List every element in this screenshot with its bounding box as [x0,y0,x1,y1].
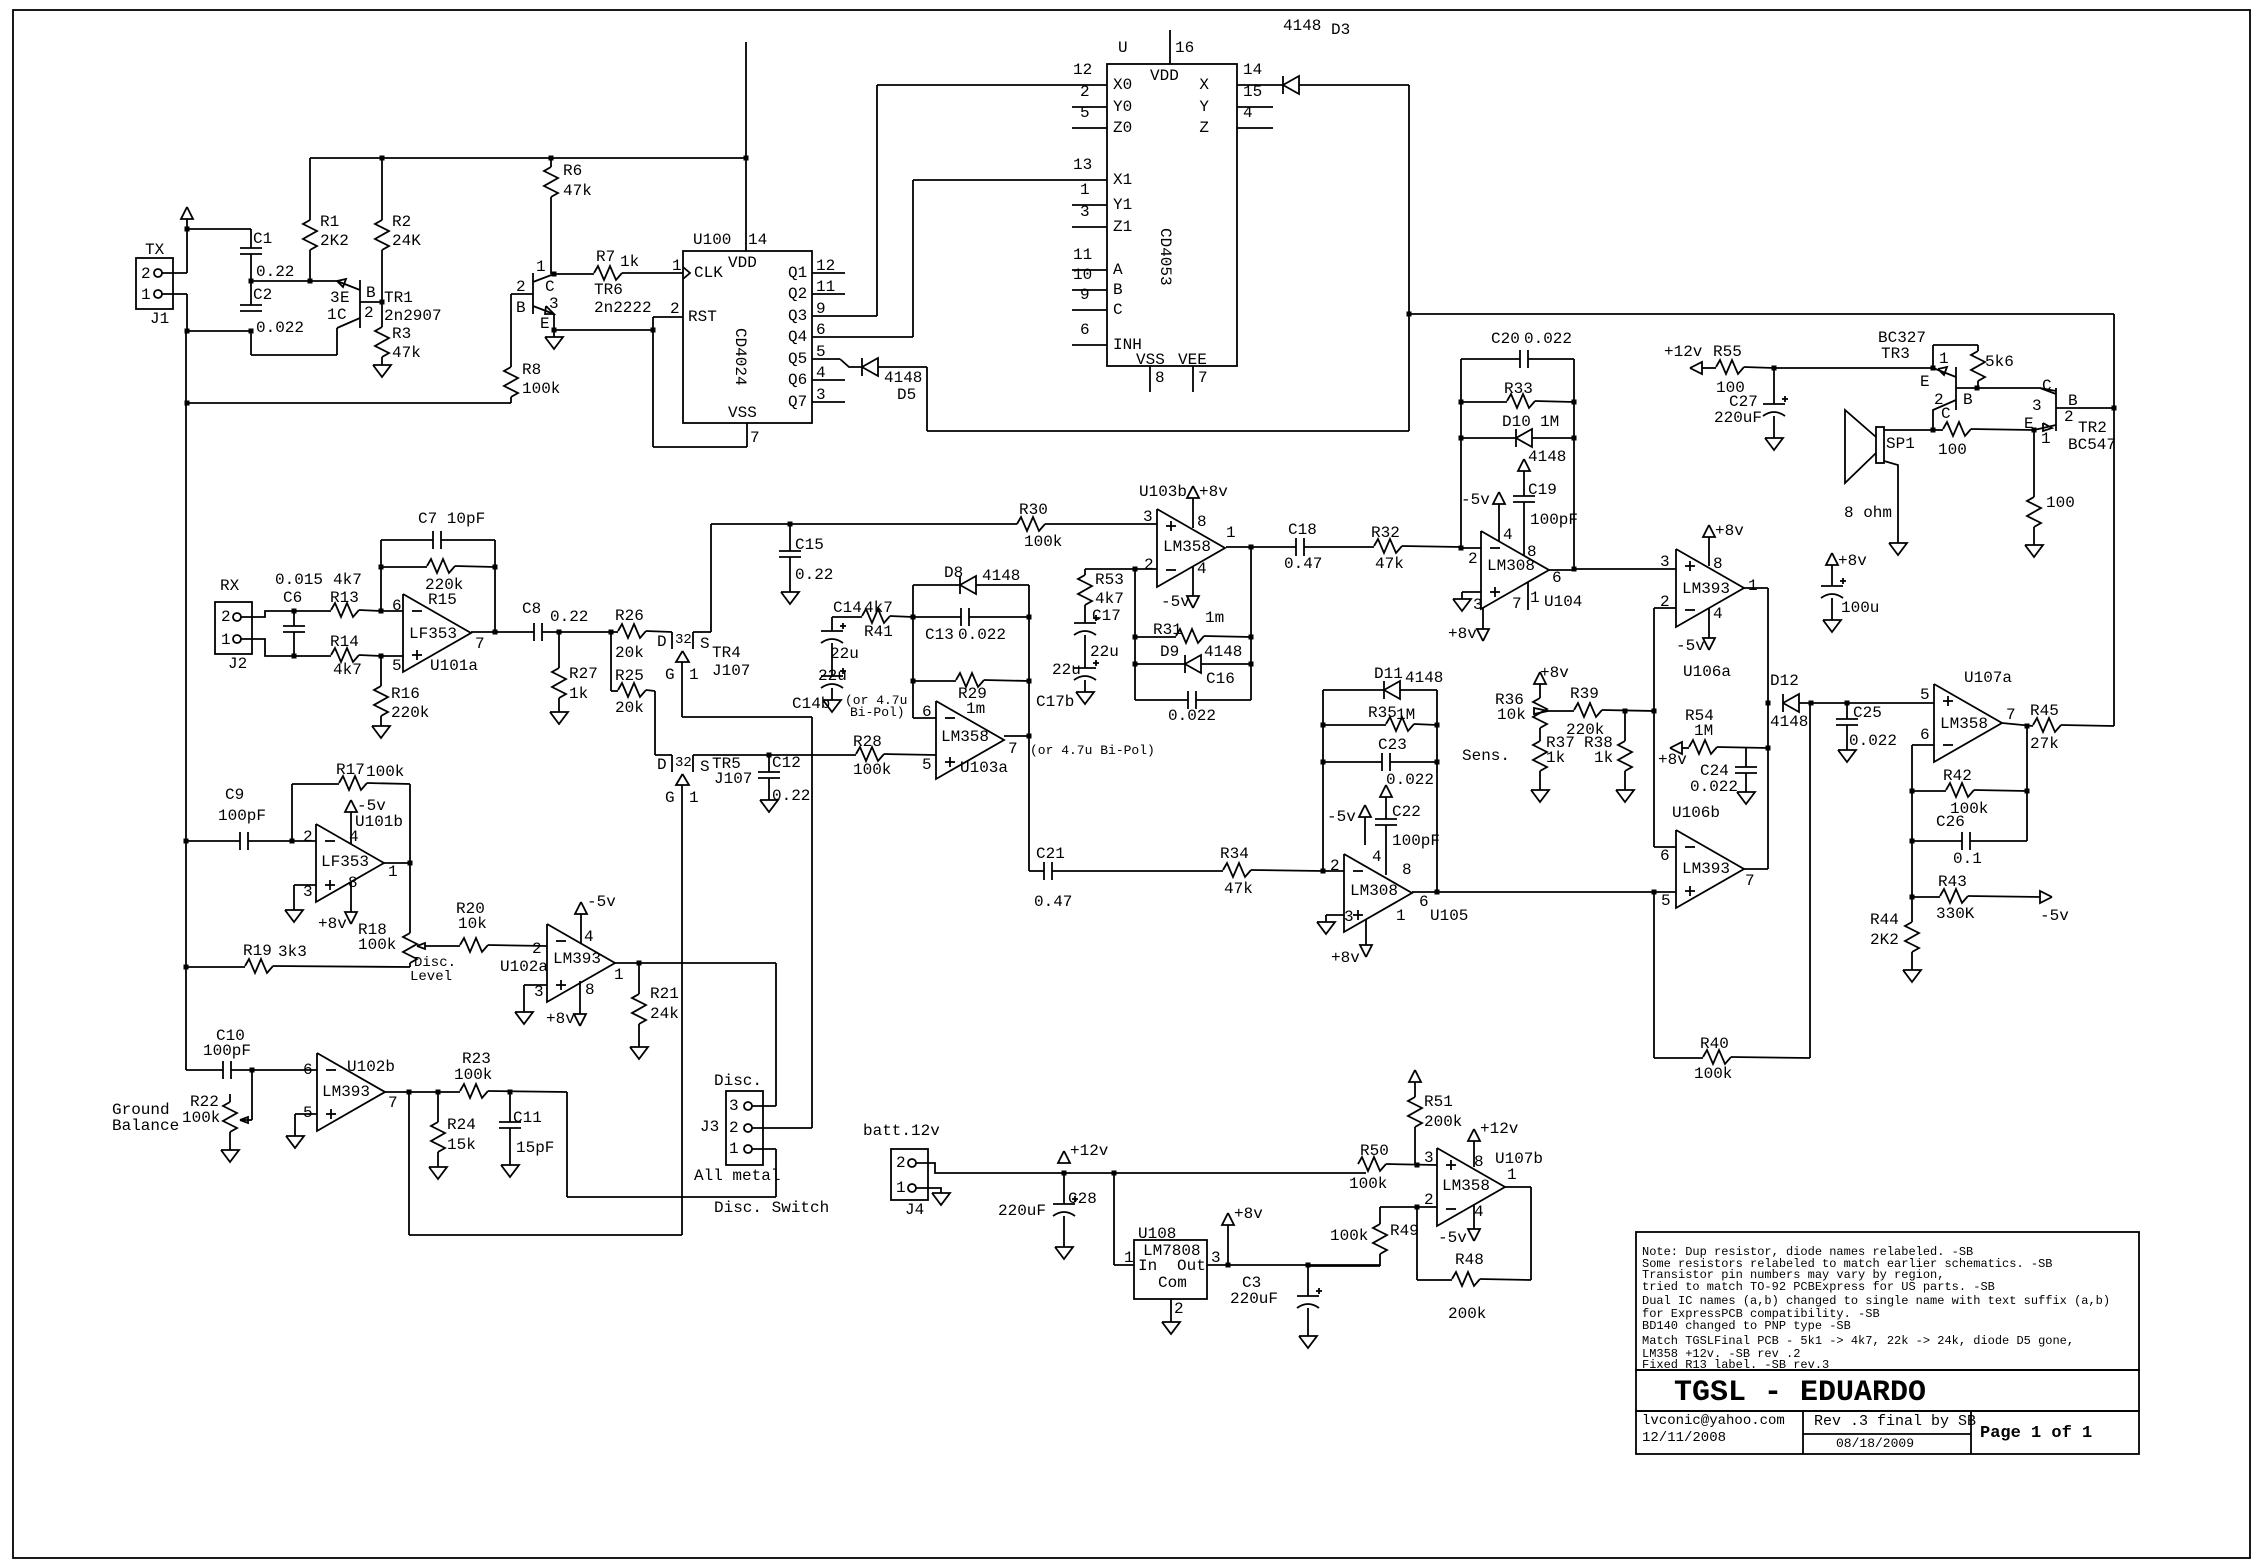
svg-text:U103a: U103a [960,759,1008,777]
wire SP1 top [1884,429,1933,431]
capacitor C23 [1323,736,1437,789]
svg-text:C6: C6 [283,589,302,607]
resistor R19 3k3 [186,942,410,973]
svg-text:R42: R42 [1943,767,1972,785]
resistor R35 1M [1323,704,1437,731]
resistor R49 100k [1308,1222,1419,1266]
node R43 left [1910,895,1915,900]
svg-text:+8v: +8v [1199,483,1228,501]
ground TR2e [2025,545,2043,557]
node R35 right [1435,723,1440,728]
resistor R15 220k [381,559,495,573]
wire Q6 stub [812,379,845,381]
wire VEE stub [1193,366,1208,392]
capacitor C25 [1836,703,1897,750]
resistor R29 1m [913,673,1029,718]
node C10 right [250,1068,255,1073]
svg-text:R7: R7 [596,248,615,266]
node C6 top [292,609,297,614]
svg-text:C26: C26 [1936,813,1965,831]
svg-text:3k3: 3k3 [278,943,307,961]
node U106a pin3 [1572,567,1577,572]
svg-text:R35: R35 [1368,704,1397,722]
node C25 top [1845,701,1850,706]
svg-text:100pF: 100pF [203,1042,251,1060]
wire TR3b to TR2c [1977,388,2056,391]
node U103a out [1027,734,1032,739]
ground R24 [429,1167,447,1179]
svg-text:1m: 1m [1205,609,1224,627]
svg-text:100k: 100k [1024,533,1062,551]
node top rail U100vdd [744,156,749,161]
svg-text:7: 7 [1008,740,1018,758]
svg-text:R24: R24 [447,1116,476,1134]
node U102b out [407,1090,412,1095]
svg-text:R25: R25 [615,667,644,685]
svg-text:C19: C19 [1528,481,1557,499]
svg-text:X0: X0 [1113,76,1132,94]
svg-text:C20: C20 [1491,330,1520,348]
svg-text:-5v: -5v [1438,1229,1467,1247]
svg-text:1: 1 [1124,1249,1134,1267]
svg-text:LF353: LF353 [409,625,457,643]
svg-text:5: 5 [922,756,932,774]
node R42 right [2025,789,2030,794]
svg-text:100k: 100k [454,1066,492,1084]
svg-text:6: 6 [1920,726,1930,744]
svg-text:4148: 4148 [1283,17,1321,35]
node D10 left [1459,436,1464,441]
wire J3 pin3 stub [752,1105,776,1107]
wire U103b pin2 [1085,568,1157,570]
svg-text:U106a: U106a [1683,663,1731,681]
capacitor C8 [522,600,611,641]
wire J4 pin1 gnd [916,1188,950,1205]
resistor R31 1m [1135,609,1251,643]
transistor TR1 2n2907 [327,279,442,328]
wire U100 VDD [745,158,747,251]
svg-text:J1: J1 [150,310,169,328]
wire TR4 source up [693,524,711,632]
node R33 right [1572,400,1577,405]
node R39 node [1652,709,1657,714]
ground R37 [1531,790,1549,802]
svg-text:4: 4 [1503,526,1513,544]
wire TR5 source rail [693,754,856,756]
resistor R27 [552,632,598,712]
svg-text:+8v: +8v [1838,552,1867,570]
wire main rail y314 [1409,313,2114,315]
svg-text:U104: U104 [1544,593,1582,611]
svg-text:C21: C21 [1036,845,1065,863]
svg-text:TR1: TR1 [384,289,413,307]
svg-text:R44: R44 [1870,911,1899,929]
connector J3 disc switch [694,1072,829,1217]
svg-text:10: 10 [1073,266,1092,284]
ground R21 [630,1047,648,1059]
capacitor C20 0.022 [1491,330,1574,368]
svg-text:R51: R51 [1424,1093,1453,1111]
svg-text:6: 6 [1660,847,1670,865]
svg-text:C18: C18 [1288,521,1317,539]
wire U107b pin2 loop [1380,1207,1437,1224]
svg-text:U105: U105 [1430,907,1468,925]
transistor TR2 BC547 [2024,377,2116,454]
svg-text:Z: Z [1199,119,1209,137]
wire Q1 stub [812,272,845,274]
svg-text:LF353: LF353 [321,853,369,871]
svg-text:Sens.: Sens. [1462,747,1510,765]
wire CD4053 VDD stub [1169,30,1171,64]
svg-text:C: C [2042,377,2052,395]
svg-text:2: 2 [364,304,374,322]
svg-text:TR4: TR4 [712,644,741,662]
svg-text:tried to match TO-92 PCBExpres: tried to match TO-92 PCBExpress for US p… [1642,1280,1995,1294]
svg-text:3: 3 [729,1097,739,1115]
capacitor C28 220uF [998,1173,1097,1247]
svg-text:B: B [366,284,376,302]
wire U106b out [1743,868,1768,870]
svg-text:5: 5 [392,657,402,675]
IC CD4053 [1073,39,1262,369]
wire U103a out [1004,735,1029,737]
wire U106 tie vertical [1653,608,1655,847]
notes box [1636,1232,2139,1372]
svg-text:4: 4 [1713,605,1723,623]
wire U101b out [384,862,410,864]
svg-text:1: 1 [689,789,699,807]
diode D9 4148 [1135,643,1251,673]
svg-text:5: 5 [303,1104,313,1122]
svg-text:CLK: CLK [694,264,723,282]
svg-text:X: X [1199,76,1209,94]
svg-text:0.1: 0.1 [1953,850,1982,868]
node C24 top [1766,746,1771,751]
svg-text:D: D [657,756,667,774]
svg-text:C13: C13 [925,626,954,644]
node TR2 base rail [2112,406,2117,411]
power -5v U107b [1438,1205,1480,1247]
svg-text:J2: J2 [228,655,247,673]
wire U107b out [1505,1186,1531,1188]
svg-text:J4: J4 [905,1201,924,1219]
node left rail y403 [185,401,190,406]
resistor SP 100 [1933,422,2034,459]
svg-text:CD4053: CD4053 [1156,228,1174,286]
svg-text:2: 2 [670,300,680,318]
op-amp U106b LM393 [1660,804,1755,910]
node U105 pin2 [1321,869,1326,874]
resistor R38 1k [1584,711,1632,790]
node R1 bottom [308,279,313,284]
wire J1 pin1 down [162,294,187,331]
svg-text:3: 3 [549,295,559,313]
wire R23 to switch [567,1092,776,1197]
svg-text:7: 7 [1198,369,1208,387]
svg-text:R34: R34 [1220,845,1249,863]
svg-text:7: 7 [2006,706,2016,724]
node fb R29 left [911,679,916,684]
wire R48 loop [1417,1207,1452,1280]
svg-text:4: 4 [1197,560,1207,578]
svg-text:VDD: VDD [728,254,757,272]
node U105 fbout [1435,890,1440,895]
svg-text:-5v: -5v [1461,491,1490,509]
svg-text:G: G [665,666,675,684]
svg-text:-5v: -5v [1676,637,1705,655]
svg-text:0.022: 0.022 [256,319,304,337]
svg-text:R17: R17 [336,761,365,779]
capacitor C7 10pF [381,510,495,549]
label Sens [1462,747,1510,765]
svg-text:B: B [1113,281,1123,299]
resistor R25 20k [611,632,672,755]
IC U108 LM7808 [1124,1225,1221,1318]
node pin2 R53 [1133,567,1138,572]
node C11 top [508,1090,513,1095]
ground C15 [781,592,799,604]
svg-text:100k: 100k [853,761,891,779]
resistor 5k6 [1971,345,2014,388]
resistor R1 [303,158,349,281]
ground R44 [1903,970,1921,982]
ground TR6 [545,330,563,349]
wire Q2 stub [812,293,845,295]
svg-text:LM393: LM393 [1682,580,1730,598]
node U107b pin3 [1415,1163,1420,1168]
svg-text:2: 2 [729,1119,739,1137]
svg-text:Page 1 of 1: Page 1 of 1 [1980,1424,2092,1443]
node C28 top [1062,1171,1067,1176]
svg-text:R13: R13 [330,589,359,607]
svg-text:B: B [516,299,526,317]
node TR6 collector [552,272,557,277]
pot R22 100k [112,1070,252,1150]
svg-text:D: D [657,633,667,651]
capacitor C19 100pF [1513,448,1578,556]
capacitor C16 [1135,670,1251,725]
op-amp U102b LM393 [303,1053,398,1131]
node fb C13 right [1027,615,1032,620]
svg-text:C11: C11 [513,1109,542,1127]
svg-text:6: 6 [303,1061,313,1079]
node C26 left [1910,839,1915,844]
svg-text:lvconic@yahoo.com: lvconic@yahoo.com [1642,1413,1785,1429]
svg-text:2n2907: 2n2907 [384,307,442,325]
svg-text:R50: R50 [1360,1142,1389,1160]
wire TR6 emitter [553,314,555,330]
wire U101b fb [292,784,339,841]
svg-text:X1: X1 [1113,171,1132,189]
svg-text:D11: D11 [1374,665,1403,683]
svg-text:5: 5 [1920,686,1930,704]
svg-text:Q3: Q3 [788,307,807,325]
op-amp U102a LM393 [500,924,624,1002]
wire U103a fb left [912,585,914,718]
svg-text:C: C [1941,405,1951,423]
svg-text:BC547: BC547 [2068,436,2116,454]
svg-text:TR3: TR3 [1881,345,1910,363]
svg-text:1M: 1M [1694,722,1713,740]
node R38 top [1623,709,1628,714]
svg-text:330K: 330K [1936,905,1975,923]
node SP1 TR3c [1931,428,1936,433]
svg-text:+8v: +8v [546,1010,575,1028]
capacitor C27 220uF [1714,368,1788,438]
node R26 R25 split [609,630,614,635]
power +8v U104 [1448,608,1489,643]
op-amp U107b LM358 [1424,1148,1543,1226]
wire top rail [310,157,746,159]
svg-text:R45: R45 [2030,702,2059,720]
capacitor C14b 22u [792,643,907,720]
svg-text:S: S [700,758,710,776]
svg-text:R32: R32 [1371,524,1400,542]
svg-text:1: 1 [896,1179,906,1197]
wire C1 bottom [250,254,252,281]
svg-text:0.22: 0.22 [256,263,294,281]
svg-text:Q4: Q4 [788,328,807,346]
pot R36 10k [1495,664,1569,741]
wire U106b pin6 [1654,846,1676,848]
svg-text:C9: C9 [225,786,244,804]
wire U104 pin2 [1461,547,1481,549]
svg-text:2: 2 [2064,408,2074,426]
svg-text:In: In [1138,1257,1157,1275]
svg-text:Rev .3 final by SB: Rev .3 final by SB [1814,1413,1976,1430]
wire U104out to U106a [1574,568,1676,570]
svg-text:+12v: +12v [1480,1120,1519,1138]
svg-text:2: 2 [1144,556,1154,574]
svg-text:R43: R43 [1938,873,1967,891]
svg-text:2K2: 2K2 [1870,931,1899,949]
node C23 left [1321,760,1326,765]
svg-text:8: 8 [348,874,358,892]
ground C28 [1055,1247,1073,1259]
op-amp U101b LF353 [292,813,403,902]
wire U104 out [1549,569,1574,571]
wire U102bout down [409,1092,682,1235]
ground U108 com [1162,1299,1180,1334]
svg-text:2: 2 [1080,83,1090,101]
ground C27 [1765,438,1783,450]
svg-text:1: 1 [1507,1166,1517,1184]
svg-text:-5v: -5v [2040,907,2069,925]
wire U102b out [385,1091,460,1093]
wire U101a fb left [380,540,382,611]
svg-text:Y: Y [1199,98,1209,116]
wire Z0 stub [1072,127,1107,129]
svg-text:R19: R19 [243,942,272,960]
svg-text:4: 4 [584,928,594,946]
resistor R42 100k [1912,767,2027,818]
node +8v tap [1226,1263,1231,1268]
svg-text:CD4024: CD4024 [731,328,749,386]
node fb R31 left [1133,635,1138,640]
power +8v U102a [546,981,586,1028]
svg-text:2: 2 [532,940,542,958]
svg-text:C8: C8 [522,600,541,618]
resistor R41 4k7 [832,599,913,641]
resistor R40 100k [1694,703,1810,1083]
node C6 bottom [292,654,297,659]
svg-text:Q1: Q1 [788,264,807,282]
svg-text:6: 6 [1080,321,1090,339]
wire RST vertical [653,317,747,447]
svg-text:C17b: C17b [1036,693,1074,711]
svg-text:R6: R6 [563,162,582,180]
svg-text:Bi-Pol): Bi-Pol) [850,705,905,720]
svg-text:8: 8 [1527,543,1537,561]
svg-text:Level: Level [410,969,452,985]
ground U101b pin3 [285,885,316,922]
svg-text:100k: 100k [182,1109,220,1127]
svg-text:C16: C16 [1206,670,1235,688]
resistor R45 27k [2030,314,2114,753]
capacitor C22 100pF [1375,785,1440,875]
svg-text:14: 14 [748,231,767,249]
wire left rail [185,329,252,1071]
svg-text:TR6: TR6 [594,281,623,299]
svg-text:47k: 47k [563,182,592,200]
connector J4 batt [863,1122,940,1219]
svg-text:0.015: 0.015 [275,571,323,589]
svg-text:SP1: SP1 [1886,435,1915,453]
svg-text:3: 3 [1344,908,1354,926]
power -5v U102a [575,893,616,943]
svg-text:-5v: -5v [357,797,386,815]
node U101a out [493,630,498,635]
svg-text:C2: C2 [253,286,272,304]
svg-text:+8v: +8v [1234,1205,1263,1223]
svg-text:U101a: U101a [430,657,478,675]
svg-text:24k: 24k [650,1005,679,1023]
capacitor C6 [275,571,323,656]
svg-text:4k7: 4k7 [864,599,893,617]
resistor R48 200k [1448,1187,1531,1323]
power +8v U103b [1187,483,1228,528]
node D10 right [1572,436,1577,441]
resistor R17 100k [336,761,410,790]
svg-text:R2: R2 [392,213,411,231]
svg-text:Match TGSLFinal PCB - 5k1 -> 4: Match TGSLFinal PCB - 5k1 -> 4k7, 22k ->… [1642,1334,2074,1348]
pin1 stub U104 [1527,582,1529,610]
svg-text:220uF: 220uF [998,1202,1046,1220]
ground U105 pin3 [1317,915,1344,934]
svg-text:+8v: +8v [318,915,347,933]
wire C stub [1072,309,1107,311]
svg-text:0.022: 0.022 [1386,771,1434,789]
capacitor C17 22u [1074,607,1121,661]
svg-text:-5v: -5v [1327,808,1356,826]
svg-text:0.022: 0.022 [958,626,1006,644]
svg-text:4: 4 [1474,1203,1484,1221]
resistor R2 [375,158,421,302]
capacitor C2 [240,281,304,337]
svg-text:100k: 100k [522,380,560,398]
svg-text:12/11/2008: 12/11/2008 [1642,1430,1726,1446]
node C8 right R27 [557,630,562,635]
power -5v U104 [1461,491,1505,541]
op-amp U101a LF353 [381,576,485,675]
power arrow TX top [181,207,193,229]
wire U103a fb right [1028,585,1030,736]
svg-text:12: 12 [1073,61,1092,79]
svg-text:13: 13 [1073,156,1092,174]
svg-text:1: 1 [221,631,231,649]
svg-text:2: 2 [1468,550,1478,568]
svg-text:1k: 1k [620,253,639,271]
